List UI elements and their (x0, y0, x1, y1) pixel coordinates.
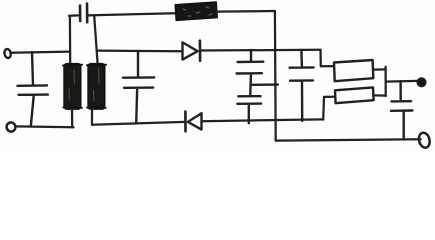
output terminal J3 (top right, filled) (417, 78, 426, 87)
capacitor C2 (top branch, series) (80, 4, 87, 23)
wire: R3 right to output node (373, 94, 385, 96)
capacitor C4 (290, 50, 314, 121)
wire: J1 to primary-top riser (11, 52, 70, 53)
wire: R2 right to output node (373, 68, 385, 70)
output terminal J4 (bottom right, open) (417, 132, 431, 149)
resistor R2 (top right, open box) (334, 60, 373, 81)
wire: long vertical (top branch down to bottom output wire) (274, 11, 277, 140)
resistor R3 (bottom right, open box) (335, 87, 374, 103)
capacitor C5 (output) (391, 81, 412, 139)
wire: output node to J3 (386, 80, 418, 83)
diode D2 (bottom, pointing left) (185, 112, 201, 132)
wire: R3 left, corner down to rail (323, 97, 335, 120)
wire: left riser (primary top to C2) (69, 15, 79, 63)
wire: W1 bottom to primary rail (71, 109, 73, 127)
transformer secondary winding W2 (87, 64, 106, 110)
wire: primary bottom rail (16, 125, 74, 128)
input terminal J1 (top left) (4, 48, 12, 58)
diode D1 (top, pointing right) (183, 41, 201, 61)
transformer primary winding W1 (63, 64, 82, 110)
wire: right riser (top branch down to secondary top) (94, 16, 97, 64)
wire: bottom output (long vertical corner to J4) (276, 139, 421, 140)
wire: D1 to right corner (200, 49, 320, 52)
capacitor C1 (across input) (18, 52, 48, 126)
capacitor stack C6 C7 with center tap (237, 50, 278, 123)
input terminal J2 (bottom left) (6, 122, 16, 133)
wire: secondary bottom rail (right of D2) (202, 119, 323, 121)
wire: output node vertical (384, 67, 386, 96)
wire: secondary bottom rail (left of D2) (92, 122, 185, 125)
resistor R1 (dark filled box, top) (175, 2, 217, 20)
capacitor C3 (after winding) (123, 51, 154, 123)
wire: C2 to resistor R1 (88, 13, 176, 15)
wire: secondary top rail (W2 to D1) (98, 49, 183, 52)
wire: W2 bottom to secondary rail (91, 109, 93, 124)
wire: R1 to long vertical (217, 10, 275, 13)
wire: corner down into R2 (321, 50, 335, 66)
